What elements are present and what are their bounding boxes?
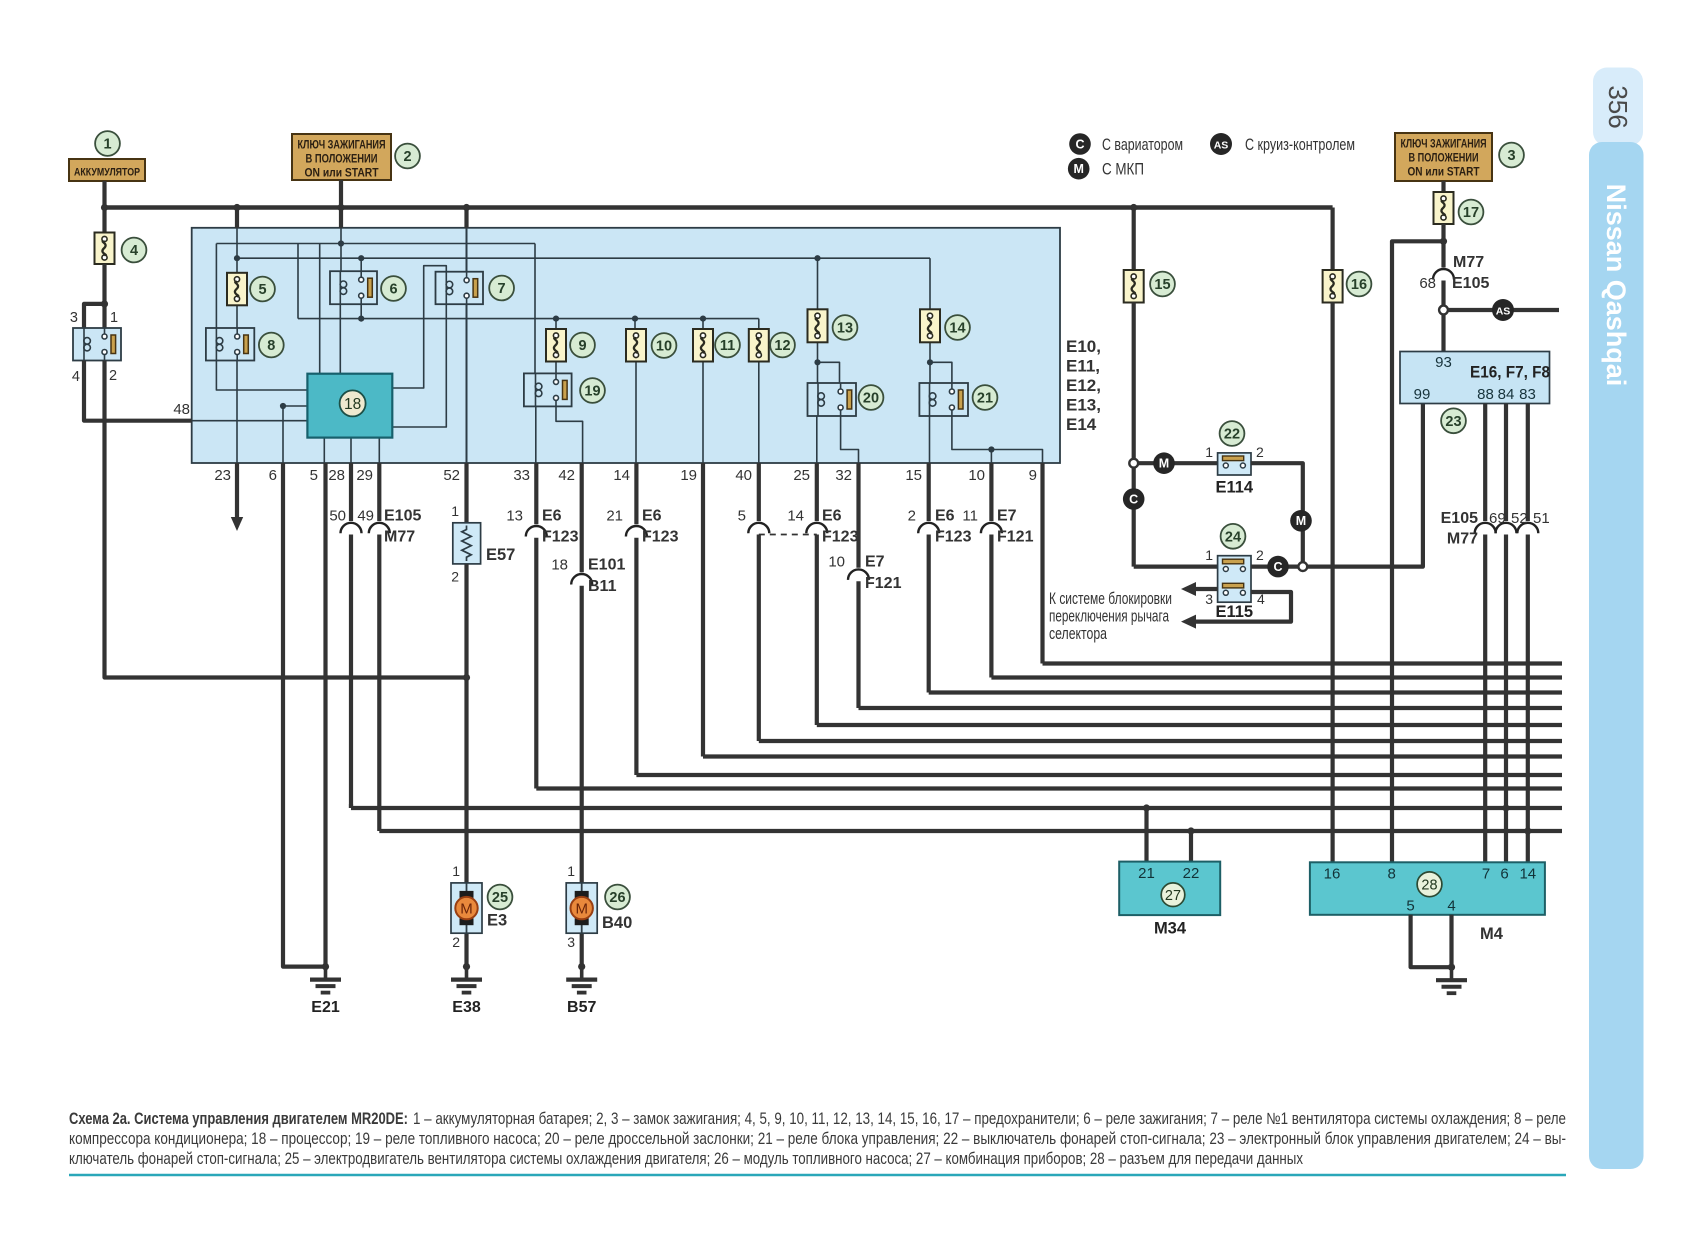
component circle 4 bbox=[122, 238, 147, 263]
wire motor26 to ground B57 bbox=[580, 933, 584, 966]
svg-text:3: 3 bbox=[567, 934, 575, 950]
svg-text:E115: E115 bbox=[1215, 603, 1253, 621]
wire ignition stub to relay6 coil x=341 bbox=[340, 228, 342, 271]
svg-text:M34: M34 bbox=[1154, 920, 1187, 938]
svg-text:26: 26 bbox=[609, 890, 625, 906]
component circle 11 bbox=[715, 333, 740, 358]
wire fuse12 out to pin 40 bbox=[758, 362, 760, 464]
wire 28 processor out bbox=[350, 438, 352, 463]
node AS open circle bbox=[1439, 306, 1448, 315]
svg-text:7: 7 bbox=[1482, 866, 1490, 883]
node bus fuse15 junction bbox=[1130, 204, 1137, 211]
svg-text:6: 6 bbox=[1500, 866, 1508, 883]
component circle 21 bbox=[973, 385, 998, 410]
wire 15 bbox=[927, 463, 931, 521]
wire AS branch bbox=[1448, 308, 1559, 312]
svg-text:42: 42 bbox=[558, 467, 575, 484]
node M4 ground junction bbox=[1448, 964, 1455, 971]
wire fuse12 stub from H3 corner bbox=[758, 319, 760, 329]
svg-text:M77: M77 bbox=[384, 529, 415, 546]
node fuse9 feed bbox=[553, 316, 559, 322]
svg-text:ключатель фонарей стоп-сигнала: ключатель фонарей стоп-сигнала; 25 – эле… bbox=[69, 1150, 1303, 1168]
svg-text:F123: F123 bbox=[642, 529, 679, 546]
svg-text:93: 93 bbox=[1435, 354, 1452, 371]
svg-text:E7: E7 bbox=[997, 508, 1017, 525]
processor 18 circle bbox=[340, 390, 366, 416]
svg-text:E13,: E13, bbox=[1066, 396, 1101, 415]
svg-text:3: 3 bbox=[1507, 148, 1515, 164]
svg-text:AS: AS bbox=[1496, 305, 1511, 317]
fuse 16 bbox=[1323, 270, 1343, 303]
svg-text:4: 4 bbox=[130, 243, 138, 259]
svg-text:M: M bbox=[1073, 162, 1083, 176]
node fuse13 feed junction bbox=[814, 255, 820, 261]
svg-text:11: 11 bbox=[720, 338, 735, 354]
svg-text:Схема 2а. Система управления д: Схема 2а. Система управления двигателем … bbox=[69, 1110, 1566, 1128]
connector 5-14 dashed pair bbox=[748, 523, 769, 534]
svg-text:E105: E105 bbox=[384, 508, 421, 525]
wire 29 processor out bbox=[378, 438, 380, 463]
wire relay20 coil out to pin 25 bbox=[816, 416, 818, 463]
svg-text:АККУМУЛЯТОР: АККУМУЛЯТОР bbox=[74, 166, 140, 178]
connector 10 E7 bbox=[848, 569, 869, 580]
wire 23 with arrow bbox=[235, 463, 239, 517]
svg-text:15: 15 bbox=[905, 467, 922, 484]
svg-text:50: 50 bbox=[329, 508, 346, 525]
svg-text:28: 28 bbox=[1421, 877, 1437, 893]
electric fan motor 25 bbox=[451, 883, 482, 933]
svg-text:E101: E101 bbox=[588, 557, 625, 574]
svg-text:10: 10 bbox=[656, 339, 672, 355]
wire 52 upper bbox=[464, 463, 468, 523]
wire 10 branch inside box bbox=[990, 450, 992, 464]
svg-text:F123: F123 bbox=[935, 529, 972, 546]
wire ECU pin83 to M4 pin14 bbox=[1526, 404, 1530, 522]
node relay6 contact feed bbox=[358, 255, 364, 261]
relay 8 A/C compressor relay bbox=[206, 328, 254, 361]
svg-text:E6: E6 bbox=[642, 508, 662, 525]
svg-text:9: 9 bbox=[578, 338, 586, 354]
fuse 17 bbox=[1434, 192, 1454, 224]
wire 33 bbox=[534, 463, 538, 524]
svg-text:33: 33 bbox=[513, 467, 530, 484]
wire fuse13 stub bbox=[817, 258, 819, 309]
svg-text:1: 1 bbox=[1205, 547, 1213, 563]
wire 14 horizontal rail y=775 bbox=[636, 773, 1562, 777]
svg-text:356: 356 bbox=[1603, 85, 1633, 128]
svg-text:В ПОЛОЖЕНИИ: В ПОЛОЖЕНИИ bbox=[1409, 153, 1479, 165]
wire relay6 contact out to H3 bbox=[360, 304, 362, 318]
node relay6-H3 junction bbox=[358, 316, 364, 322]
svg-text:E105: E105 bbox=[1452, 275, 1489, 292]
legend C variator bbox=[1069, 133, 1091, 155]
svg-text:3: 3 bbox=[70, 310, 78, 326]
component circle 25 bbox=[488, 885, 513, 910]
wire relay7 coil bottom link bbox=[392, 304, 446, 427]
engine ECU 23 box bbox=[1400, 352, 1550, 404]
node H2 start junction bbox=[234, 255, 240, 261]
wire H1 ignition feed rail y=243.5 bbox=[216, 243, 535, 245]
svg-text:B40: B40 bbox=[602, 914, 632, 932]
fuse 14 bbox=[920, 309, 940, 342]
fuse 15 bbox=[1124, 270, 1144, 303]
node fuse14 output split bbox=[927, 359, 933, 365]
svg-text:2: 2 bbox=[1256, 444, 1264, 460]
connector 13 E6 bbox=[526, 526, 547, 537]
svg-text:M4: M4 bbox=[1480, 925, 1504, 943]
svg-text:25: 25 bbox=[793, 467, 810, 484]
svg-text:E14: E14 bbox=[1066, 415, 1097, 434]
svg-text:1: 1 bbox=[103, 137, 111, 153]
wire branch to M4 pin8 bbox=[1392, 241, 1444, 862]
svg-text:M77: M77 bbox=[1453, 254, 1484, 271]
wire 40 bbox=[757, 463, 761, 521]
wire fuse10 out to pin 14 bbox=[635, 362, 637, 464]
wire 15 horizontal rail y=692.5 bbox=[929, 690, 1562, 694]
svg-text:3: 3 bbox=[1205, 591, 1213, 607]
node battery relay coil tap bbox=[101, 300, 108, 307]
wire fuse16 to M4 pin16 bbox=[1330, 303, 1334, 863]
component circle 24 bbox=[1221, 524, 1246, 549]
wire 29 bbox=[377, 463, 381, 521]
svg-text:52: 52 bbox=[443, 467, 460, 484]
svg-text:4: 4 bbox=[1447, 898, 1455, 915]
wire E115 pin2 to node bbox=[1251, 564, 1298, 568]
fuse 9 bbox=[546, 329, 566, 362]
svg-text:6: 6 bbox=[269, 467, 277, 484]
svg-text:16: 16 bbox=[1324, 866, 1341, 883]
wire fuse14 stub from H2 corner bbox=[929, 258, 931, 309]
component circle 26 bbox=[605, 885, 630, 910]
component circle 14 bbox=[945, 315, 970, 340]
symbol C circle 2 bbox=[1267, 556, 1289, 578]
svg-text:14: 14 bbox=[1519, 866, 1536, 883]
component circle 16 bbox=[1347, 272, 1372, 297]
svg-text:F121: F121 bbox=[865, 575, 902, 592]
node fuse13 output split bbox=[814, 359, 820, 365]
svg-text:M: M bbox=[575, 901, 588, 918]
svg-text:17: 17 bbox=[1463, 205, 1479, 221]
svg-text:E38: E38 bbox=[452, 999, 481, 1016]
component circle 12 bbox=[770, 333, 795, 358]
svg-text:68: 68 bbox=[1419, 275, 1436, 292]
svg-text:E21: E21 bbox=[311, 999, 340, 1016]
wire fuse9 stub bbox=[555, 319, 557, 329]
wire 40 horizontal rail y=741 bbox=[759, 739, 1562, 743]
fuel pump module 26 bbox=[566, 883, 597, 933]
instrument cluster M34 (27) bbox=[1119, 862, 1220, 916]
wire 9 horizontal rail y=663.5 bbox=[1043, 661, 1563, 665]
wire fuse5 feed x=237 bbox=[236, 228, 238, 273]
svg-text:14: 14 bbox=[949, 321, 965, 337]
wire relay8 coil to processor bbox=[216, 361, 307, 391]
node fuse11 feed bbox=[700, 316, 706, 322]
wire 28 bbox=[349, 463, 353, 521]
node bus stub5 junction bbox=[233, 204, 240, 211]
svg-text:КЛЮЧ ЗАЖИГАНИЯ: КЛЮЧ ЗАЖИГАНИЯ bbox=[1401, 139, 1487, 151]
svg-text:99: 99 bbox=[1414, 386, 1431, 403]
svg-text:32: 32 bbox=[835, 467, 852, 484]
node E115 open circle bbox=[1298, 562, 1307, 571]
svg-text:18: 18 bbox=[344, 396, 361, 413]
ignition key box 2 bbox=[292, 134, 391, 180]
relay 20 throttle relay bbox=[808, 383, 857, 416]
wire fuse4 to relay contact pin1 bbox=[102, 264, 106, 328]
wire H3 fuse rail y=318.6 bbox=[298, 318, 759, 320]
component circle 5 bbox=[250, 277, 275, 302]
wire relay6 contact top stub bbox=[360, 258, 362, 271]
svg-text:22: 22 bbox=[1183, 865, 1200, 882]
svg-text:E12,: E12, bbox=[1066, 376, 1101, 395]
wire ignition3 to fuse17 bbox=[1441, 181, 1445, 192]
svg-text:10: 10 bbox=[968, 467, 985, 484]
wire motor25 to ground E38 bbox=[464, 933, 468, 966]
wire 28 horizontal rail y=808 bbox=[351, 806, 1562, 810]
wire relay8 coil drop x=216.4 bbox=[215, 244, 217, 329]
connector 49 bbox=[369, 523, 390, 534]
processor 18 box bbox=[307, 374, 392, 438]
svg-text:С вариатором: С вариатором bbox=[1102, 136, 1183, 154]
svg-text:M: M bbox=[1296, 514, 1306, 528]
node processor pin6 junction bbox=[280, 403, 286, 409]
svg-text:E6: E6 bbox=[822, 508, 842, 525]
node ignition2 bus junction bbox=[337, 204, 344, 211]
svg-text:84: 84 bbox=[1498, 386, 1515, 403]
svg-text:ON или START: ON или START bbox=[1408, 167, 1480, 179]
svg-text:4: 4 bbox=[72, 369, 80, 385]
node fuse17 branch junction bbox=[1440, 238, 1447, 245]
svg-text:15: 15 bbox=[1154, 277, 1170, 293]
component circle 8 bbox=[259, 333, 284, 358]
page number tab bbox=[1593, 68, 1643, 147]
connector 21 E6 bbox=[626, 526, 647, 537]
svg-text:B57: B57 bbox=[567, 999, 596, 1016]
svg-text:C: C bbox=[1075, 137, 1084, 151]
component circle 19 bbox=[580, 378, 605, 403]
wire M34 pin22 drop bbox=[1189, 831, 1193, 862]
svg-text:компрессора кондиционера; 18 –: компрессора кондиционера; 18 – процессор… bbox=[69, 1130, 1566, 1148]
svg-text:5: 5 bbox=[738, 508, 746, 525]
wire H1 to H3 drop x=298 bbox=[297, 244, 299, 319]
symbol M circle (MT) bbox=[1153, 452, 1175, 474]
svg-text:E3: E3 bbox=[487, 912, 507, 930]
relay 21 control unit relay bbox=[919, 383, 968, 416]
svg-text:В ПОЛОЖЕНИИ: В ПОЛОЖЕНИИ bbox=[306, 154, 378, 166]
component circle 2 bbox=[395, 144, 420, 169]
svg-text:10: 10 bbox=[828, 554, 845, 571]
svg-text:2: 2 bbox=[1256, 547, 1264, 563]
sidebar strip bbox=[1589, 142, 1644, 1169]
caption underline rule bbox=[69, 1174, 1566, 1177]
relay 19 fuel pump relay bbox=[524, 373, 572, 406]
legend AS cruise bbox=[1210, 133, 1232, 155]
wire 29 horizontal rail y=831 bbox=[379, 829, 1562, 833]
svg-text:1: 1 bbox=[567, 863, 575, 879]
wire relay8 contact out (to pin 23) bbox=[236, 361, 238, 464]
wire 6 to ground E21 bbox=[283, 463, 326, 967]
svg-text:ON или START: ON или START bbox=[305, 168, 379, 180]
wire 19 horizontal rail y=756.5 bbox=[703, 754, 1562, 758]
svg-text:19: 19 bbox=[584, 384, 600, 400]
wire fuse15 column upper bbox=[1132, 208, 1136, 271]
fuse 5 bbox=[227, 273, 247, 306]
svg-text:1: 1 bbox=[110, 310, 118, 326]
wire fuse14 to relay21 bbox=[929, 342, 931, 383]
wire 42 to fuel pump bbox=[580, 463, 584, 572]
svg-text:5: 5 bbox=[1406, 898, 1414, 915]
symbol M circle 2 bbox=[1290, 510, 1312, 532]
node pin84 rail28 junction bbox=[1502, 804, 1509, 811]
svg-text:13: 13 bbox=[837, 321, 853, 337]
component circle 20 bbox=[859, 385, 884, 410]
component circle 3 bbox=[1499, 143, 1524, 168]
svg-text:27: 27 bbox=[1165, 888, 1181, 904]
arrow to selector lock system (lower) bbox=[1195, 592, 1291, 622]
symbol C circle (CVT) bbox=[1123, 488, 1145, 510]
wire node to ECU pin99 bbox=[1307, 404, 1423, 567]
wire 5 processor out bbox=[323, 438, 325, 463]
wire 10 horizontal rail y=677.5 bbox=[991, 675, 1562, 679]
relay 6 ignition relay bbox=[330, 271, 377, 304]
wire fuse5 to relay8 contact bbox=[236, 305, 238, 328]
main bus wire bbox=[105, 205, 1333, 209]
svg-text:КЛЮЧ ЗАЖИГАНИЯ: КЛЮЧ ЗАЖИГАНИЯ bbox=[298, 140, 386, 152]
svg-text:51: 51 bbox=[1533, 510, 1550, 527]
svg-text:E105: E105 bbox=[1441, 510, 1478, 527]
wire C branch down bbox=[1132, 468, 1136, 567]
component circle 15 bbox=[1150, 272, 1175, 297]
legend M MT bbox=[1068, 158, 1090, 180]
svg-text:2: 2 bbox=[403, 149, 411, 165]
wire fuse11 stub bbox=[702, 319, 704, 329]
svg-text:M: M bbox=[460, 901, 473, 918]
svg-text:18: 18 bbox=[551, 557, 568, 574]
svg-text:88: 88 bbox=[1477, 386, 1494, 403]
wire relay6 coil to processor x=340.3 bbox=[339, 304, 341, 374]
svg-text:21: 21 bbox=[606, 508, 623, 525]
svg-text:AS: AS bbox=[1214, 139, 1229, 151]
component circle 13 bbox=[833, 315, 858, 340]
node E21 junction bbox=[322, 963, 329, 970]
wire fuse11 out to pin 19 bbox=[702, 362, 704, 464]
relay 7 fan relay No1 bbox=[436, 272, 484, 305]
svg-text:1: 1 bbox=[1205, 444, 1213, 460]
fuse 11 bbox=[693, 329, 713, 362]
component circle 6 bbox=[381, 276, 406, 301]
svg-text:E16, F7, F8: E16, F7, F8 bbox=[1470, 364, 1550, 382]
node battery bus junction bbox=[101, 204, 108, 211]
svg-text:2: 2 bbox=[908, 508, 916, 525]
wire fuse13 to relay20 contact jog bbox=[818, 362, 840, 383]
wire to E115 pin1 bbox=[1134, 564, 1218, 568]
ground E21 bbox=[324, 967, 328, 980]
svg-text:F123: F123 bbox=[822, 529, 859, 546]
fuse 13 bbox=[808, 309, 828, 342]
svg-text:2: 2 bbox=[452, 934, 460, 950]
wire M34 pin21 drop bbox=[1144, 808, 1148, 862]
node E38 junction bbox=[463, 963, 470, 970]
svg-text:С МКП: С МКП bbox=[1102, 161, 1144, 179]
svg-text:B11: B11 bbox=[588, 578, 617, 595]
svg-text:5: 5 bbox=[258, 282, 266, 298]
node battery to 52line junction bbox=[463, 674, 470, 681]
relay (A/C clutch, battery side) bbox=[73, 328, 121, 361]
wire bus stub to 52 column bbox=[464, 208, 468, 228]
component circle 10 bbox=[652, 333, 677, 358]
wire coil tap jog to pin3 bbox=[84, 304, 105, 328]
svg-text:20: 20 bbox=[863, 391, 879, 407]
svg-text:E114: E114 bbox=[1215, 479, 1253, 497]
wire 52 lower to motor 25 bbox=[464, 564, 468, 883]
fuse 10 bbox=[626, 329, 646, 362]
wire 52 relay7 contact out (lower) bbox=[466, 304, 468, 463]
svg-text:83: 83 bbox=[1519, 386, 1536, 403]
wire M node to E114 bbox=[1138, 461, 1218, 465]
wire relay21 coil out to pin 15 bbox=[929, 416, 931, 463]
svg-text:E57: E57 bbox=[486, 546, 515, 564]
svg-text:E7: E7 bbox=[865, 554, 885, 571]
node bus stub52 junction bbox=[463, 204, 470, 211]
component circle 9 bbox=[570, 333, 595, 358]
wire fuse14 to relay21 contact jog bbox=[930, 362, 952, 383]
node fuse10 feed bbox=[632, 316, 638, 322]
wire M4 pin4 to ground bbox=[1449, 915, 1453, 967]
wire relay21 contact out to pin 9 bbox=[952, 416, 1043, 463]
ignition key box 3 bbox=[1395, 133, 1492, 181]
svg-text:1: 1 bbox=[452, 863, 460, 879]
data link connector M4 (28) bbox=[1310, 862, 1545, 915]
svg-text:2: 2 bbox=[109, 368, 117, 384]
arrow to selector lock system (upper) bbox=[1195, 587, 1218, 591]
wire 10 bbox=[989, 463, 993, 521]
wire relay19 coil feed x=534.8 bbox=[534, 244, 536, 374]
ground B57 bbox=[580, 967, 584, 980]
ground M4 bbox=[1450, 967, 1454, 980]
wire 48 inside box bbox=[192, 420, 308, 422]
connector 69 52 51 (E105/M77) bbox=[1475, 523, 1496, 534]
wire relay19 contact out to pin 42 bbox=[556, 406, 583, 463]
wire fuse17 down to ECU bbox=[1441, 224, 1445, 268]
wire fuse15 to M node bbox=[1132, 303, 1136, 459]
fuse 12 bbox=[749, 329, 769, 362]
connector 50 bbox=[341, 523, 362, 534]
node B57 junction bbox=[578, 963, 585, 970]
svg-text:E11,: E11, bbox=[1066, 357, 1100, 376]
svg-text:40: 40 bbox=[735, 467, 752, 484]
svg-text:22: 22 bbox=[1224, 427, 1240, 443]
component circle 7 bbox=[489, 276, 514, 301]
svg-text:9: 9 bbox=[1029, 467, 1037, 484]
wire pin2 battery feed down bbox=[105, 361, 468, 678]
svg-text:13: 13 bbox=[506, 508, 523, 525]
wire H2 battery rail y=258.2 bbox=[237, 257, 930, 259]
svg-text:С круиз-контролем: С круиз-контролем bbox=[1245, 136, 1355, 154]
wire fuse9 to relay19 contact bbox=[555, 362, 557, 374]
node rail29 M34 junction bbox=[1187, 827, 1194, 834]
svg-text:28: 28 bbox=[328, 467, 345, 484]
svg-text:C: C bbox=[1129, 492, 1138, 506]
svg-text:E6: E6 bbox=[542, 508, 562, 525]
svg-text:1: 1 bbox=[451, 503, 459, 519]
svg-text:M: M bbox=[1159, 457, 1169, 471]
resistor E57 bbox=[453, 523, 481, 564]
connector 11 E7 bbox=[981, 523, 1002, 534]
wire fuse13 to relay20 bbox=[817, 342, 819, 383]
svg-text:25: 25 bbox=[492, 890, 508, 906]
svg-text:селектора: селектора bbox=[1049, 625, 1107, 643]
wire 5 to ground E21 bbox=[323, 463, 327, 967]
component circle 23 bbox=[1441, 408, 1466, 433]
